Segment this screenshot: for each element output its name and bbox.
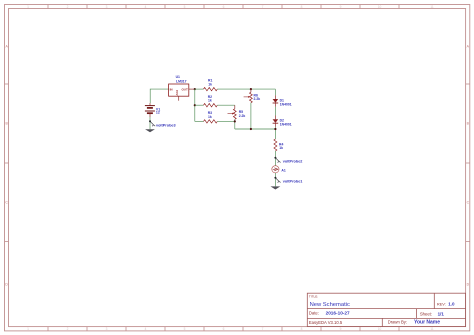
svg-text:Sheet:: Sheet: — [420, 311, 432, 316]
svg-text:11: 11 — [430, 327, 434, 331]
svg-text:7: 7 — [262, 327, 264, 331]
svg-text:TITLE:: TITLE: — [309, 294, 318, 298]
svg-text:EasyEDA V3.10.5: EasyEDA V3.10.5 — [309, 320, 343, 325]
resistor R3 — [204, 120, 218, 123]
node B junction — [194, 104, 196, 106]
ground under battery — [145, 129, 155, 132]
svg-text:4: 4 — [145, 327, 147, 331]
svg-text:11: 11 — [430, 5, 434, 9]
wire battery bottom to ground — [149, 113, 151, 117]
svg-text:1k: 1k — [208, 115, 212, 119]
svg-text:New Schematic: New Schematic — [310, 302, 350, 308]
svg-text:8: 8 — [301, 327, 303, 331]
svg-text:1k: 1k — [208, 99, 212, 103]
svg-text:IN: IN — [170, 87, 173, 91]
svg-text:9: 9 — [340, 327, 342, 331]
voltProbe2 — [275, 158, 280, 163]
junction R6 bottom — [250, 128, 252, 130]
svg-text:10: 10 — [378, 327, 382, 331]
wire node B to R2 — [195, 104, 204, 106]
potentiometer R6 — [250, 89, 252, 92]
svg-text:12: 12 — [156, 111, 160, 115]
wire R3 to R5 bottom — [217, 120, 235, 122]
svg-text:Drawn By:: Drawn By: — [388, 320, 407, 325]
R5 wiper arrow — [228, 113, 233, 115]
voltProbe1 — [275, 178, 280, 183]
node A junction — [194, 88, 196, 90]
svg-text:voltProbe2: voltProbe2 — [283, 160, 303, 164]
svg-text:1k: 1k — [208, 82, 212, 86]
resistor R1 — [204, 87, 218, 90]
svg-text:5: 5 — [184, 327, 186, 331]
svg-text:1N4001: 1N4001 — [280, 123, 292, 127]
svg-text:LM317: LM317 — [176, 79, 187, 83]
resistor R4 — [274, 139, 277, 151]
svg-text:ADJ: ADJ — [175, 89, 179, 95]
wire node C to R3 — [195, 120, 204, 122]
svg-text:4: 4 — [145, 5, 147, 9]
battery V1 top pin — [149, 103, 151, 106]
svg-text:OUT: OUT — [181, 87, 188, 91]
svg-text:1N4001: 1N4001 — [280, 102, 292, 106]
svg-text:2.2k: 2.2k — [254, 97, 261, 101]
svg-text:2016-10-27: 2016-10-27 — [326, 311, 350, 316]
U1 ADJ pin — [178, 96, 180, 100]
R6 wiper arrow — [244, 96, 249, 98]
border tick marks top — [48, 5, 399, 9]
svg-text:1/1: 1/1 — [438, 311, 445, 316]
right vertical wire top — [274, 89, 276, 95]
svg-text:REV:: REV: — [437, 301, 446, 306]
svg-text:voltProbe1: voltProbe1 — [283, 180, 303, 184]
battery V1 — [145, 106, 155, 114]
svg-text:1: 1 — [27, 327, 29, 331]
svg-text:7: 7 — [262, 5, 264, 9]
svg-text:voltProbe3: voltProbe3 — [156, 123, 176, 127]
ammeter A1 — [272, 166, 279, 173]
wire OUT to node A — [189, 88, 195, 90]
svg-text:10: 10 — [378, 5, 382, 9]
svg-text:2.2k: 2.2k — [239, 114, 246, 118]
svg-text:6: 6 — [223, 327, 225, 331]
svg-text:Date:: Date: — [309, 311, 319, 316]
wire node A to R1 — [195, 88, 204, 90]
svg-text:1k: 1k — [279, 146, 283, 150]
junction R6 top — [250, 88, 252, 90]
svg-text:1.0: 1.0 — [448, 301, 455, 306]
svg-text:9: 9 — [340, 5, 342, 9]
wire D2 to R4 — [274, 127, 276, 139]
title block — [307, 293, 465, 326]
resistor R2 — [204, 104, 218, 107]
wire A1 to probe — [274, 173, 276, 186]
junction bottom bus right — [274, 128, 276, 130]
svg-text:3: 3 — [106, 327, 108, 331]
ground bottom right — [271, 186, 281, 189]
svg-text:A1: A1 — [281, 168, 285, 172]
svg-text:2: 2 — [67, 5, 69, 9]
diode D2 — [274, 116, 276, 120]
diode D1 — [274, 95, 276, 99]
node C junction — [234, 120, 236, 122]
wire D1 to D2 — [274, 107, 276, 116]
border tick marks right — [466, 84, 470, 242]
border row letters — [5, 45, 469, 287]
svg-text:1: 1 — [27, 5, 29, 9]
svg-text:8: 8 — [301, 5, 303, 9]
potentiometer R5 — [234, 105, 236, 109]
wire R1 to top-right corner — [217, 88, 275, 90]
wire R2 to R5 top — [217, 104, 235, 106]
wire IN to battery top — [150, 89, 168, 103]
svg-text:2: 2 — [67, 327, 69, 331]
voltProbe3 — [150, 121, 155, 126]
svg-text:5: 5 — [184, 5, 186, 9]
border tick marks bottom — [48, 327, 399, 331]
svg-text:6: 6 — [223, 5, 225, 9]
svg-text:3: 3 — [106, 5, 108, 9]
wire R4 to probe — [274, 151, 276, 166]
bus vertical wire node A down — [194, 89, 196, 121]
svg-text:Your Name: Your Name — [414, 320, 440, 326]
bottom bus wire — [235, 128, 276, 130]
border tick marks left — [5, 84, 9, 242]
op-amp regulator U1 LM317 body — [169, 84, 189, 96]
